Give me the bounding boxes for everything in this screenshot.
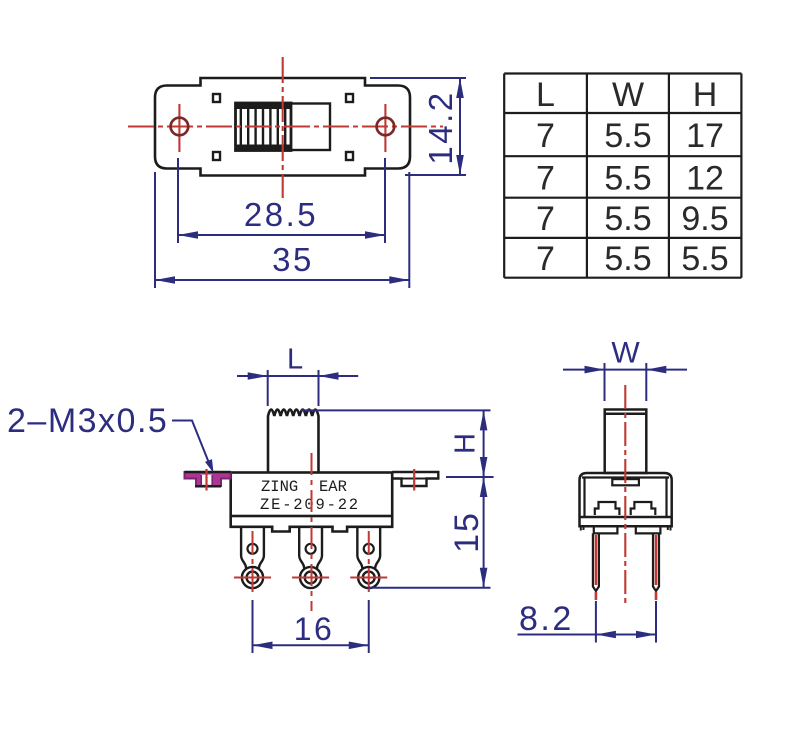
- svg-text:12: 12: [686, 159, 724, 197]
- svg-text:W: W: [611, 337, 640, 370]
- svg-text:8.2: 8.2: [519, 600, 574, 638]
- svg-text:ZE-209-22: ZE-209-22: [260, 496, 360, 514]
- svg-text:W: W: [612, 76, 644, 114]
- svg-text:5.5: 5.5: [604, 117, 651, 155]
- svg-text:7: 7: [536, 200, 555, 238]
- svg-text:15: 15: [448, 511, 486, 553]
- svg-text:7: 7: [536, 117, 555, 155]
- svg-text:2–M3x0.5: 2–M3x0.5: [7, 402, 168, 440]
- svg-text:L: L: [536, 76, 555, 114]
- svg-text:35: 35: [272, 241, 314, 278]
- svg-text:17: 17: [686, 117, 724, 155]
- svg-text:28.5: 28.5: [244, 196, 318, 233]
- svg-text:H: H: [450, 433, 482, 454]
- svg-text:EAR: EAR: [319, 478, 347, 496]
- svg-text:14.2: 14.2: [422, 90, 459, 164]
- svg-text:H: H: [693, 76, 718, 114]
- svg-text:L: L: [287, 344, 303, 376]
- svg-text:7: 7: [536, 240, 555, 278]
- svg-text:9.5: 9.5: [681, 200, 728, 238]
- svg-text:ZING: ZING: [261, 478, 298, 496]
- svg-text:7: 7: [536, 159, 555, 197]
- svg-text:16: 16: [294, 611, 335, 647]
- svg-text:5.5: 5.5: [681, 240, 728, 278]
- svg-text:5.5: 5.5: [604, 240, 651, 278]
- svg-text:5.5: 5.5: [604, 159, 651, 197]
- svg-text:5.5: 5.5: [604, 200, 651, 238]
